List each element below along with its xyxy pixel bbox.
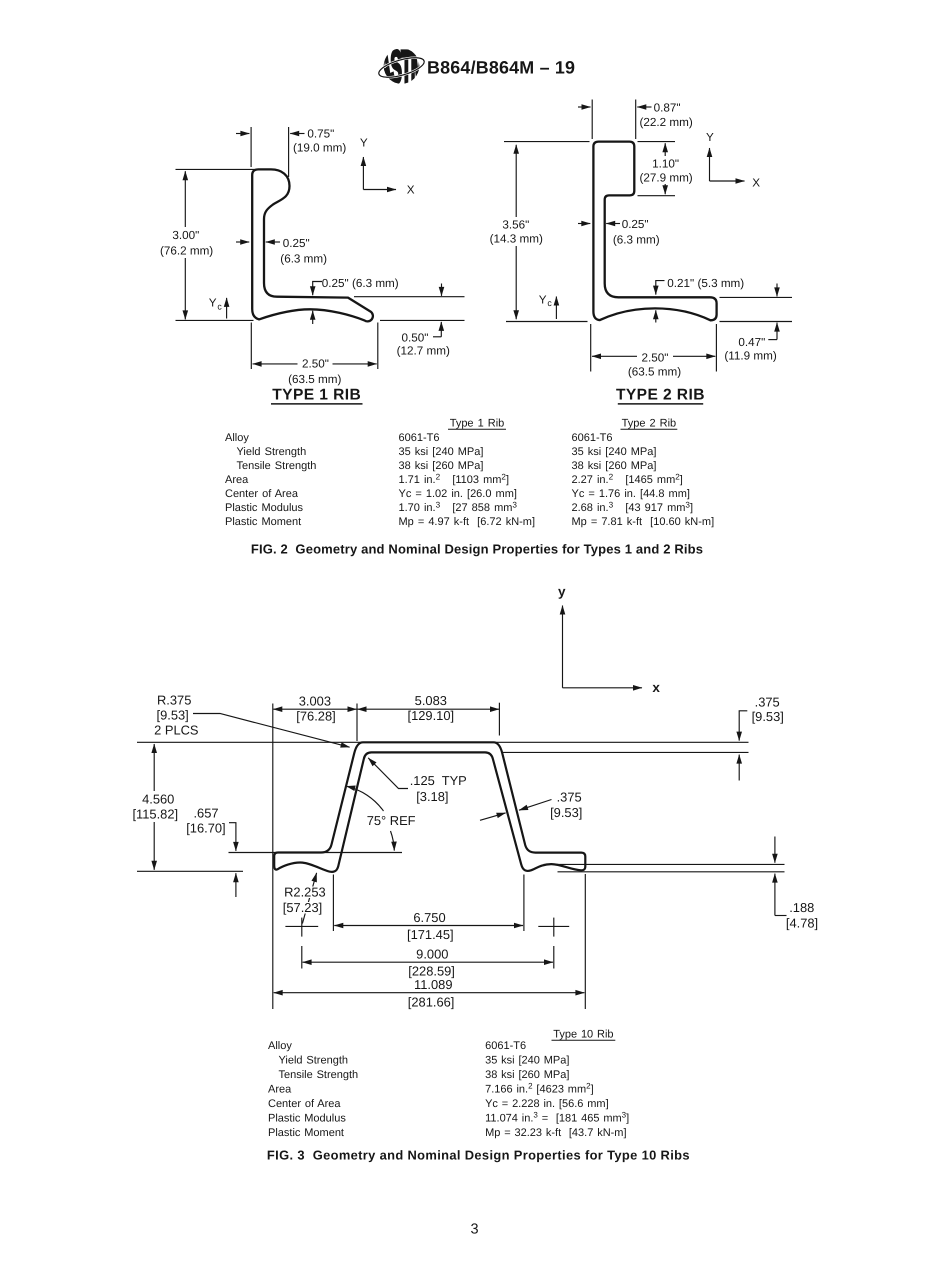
svg-text:0.25": 0.25" [622, 218, 649, 231]
svg-text:9.000: 9.000 [416, 946, 448, 961]
svg-text:FIG. 3 Geometry and Nominal D: FIG. 3 Geometry and Nominal Design Prope… [267, 1148, 690, 1163]
svg-text:0.25" (6.3 mm): 0.25" (6.3 mm) [322, 277, 399, 290]
fig2 0.47 leader foot [768, 339, 777, 341]
fig1 baseline left segment [176, 319, 254, 321]
fig1 0.25 flange up arrow [312, 311, 314, 324]
fig2 0.47 up arrow [776, 323, 778, 340]
Type 10 rib profile [274, 742, 585, 872]
svg-text:11.074 in.3 = [181 465 mm3]: 11.074 in.3 = [181 465 mm3] [485, 1111, 629, 1125]
fig2 0.25 stem left arrow [578, 223, 590, 225]
fig3 overall left extension line [272, 704, 274, 1010]
svg-text:5.083: 5.083 [415, 693, 447, 708]
fig1 baseline right segment [380, 319, 465, 321]
svg-text:35 ksi [240 MPa]: 35 ksi [240 MPa] [399, 446, 484, 458]
fig3 y axis [562, 606, 564, 688]
svg-text:35 ksi [240 MPa]: 35 ksi [240 MPa] [485, 1055, 569, 1067]
svg-text:y: y [558, 584, 566, 599]
svg-text:Plastic Modulus: Plastic Modulus [268, 1113, 346, 1125]
fig3 flange-top reference line [229, 852, 403, 854]
fig2 baseline left segment [506, 321, 588, 323]
svg-text:Y: Y [706, 131, 714, 144]
fig1 0.50 up arrow [440, 322, 442, 337]
svg-text:0.47": 0.47" [738, 336, 765, 349]
fig3 4.560 dim line lower [153, 822, 155, 870]
svg-text:[171.45]: [171.45] [407, 927, 454, 942]
fig2 0.87 dim right arrow [637, 106, 651, 108]
fig3 .657 leader bracket with down arrow [229, 823, 236, 851]
svg-text:(6.3 mm): (6.3 mm) [613, 233, 660, 246]
fig1 X axis [363, 189, 396, 191]
fig2 0.25 stem right arrow [606, 223, 620, 225]
fig3 overall right extension line [584, 874, 586, 1009]
svg-text:[9.53]: [9.53] [550, 805, 582, 820]
fig3 .125 TYP leader [368, 758, 408, 789]
fig2 1.10 down arrow [664, 184, 666, 194]
svg-text:3: 3 [470, 1222, 478, 1238]
fig2 3.56 dim line upper [515, 145, 517, 217]
svg-text:38 ksi [260 MPa]: 38 ksi [260 MPa] [572, 460, 657, 472]
svg-text:Alloy: Alloy [225, 432, 249, 444]
fig3 x axis [563, 687, 643, 689]
svg-text:75° REF: 75° REF [367, 813, 416, 828]
Type 1 rib profile [252, 169, 373, 321]
svg-text:[9.53]: [9.53] [752, 709, 784, 724]
fig1 0.25 stem right arrow [266, 241, 280, 243]
svg-text:(19.0 mm): (19.0 mm) [293, 142, 346, 155]
fig1 0.25 flange leader bracket with down arrow [313, 282, 322, 296]
svg-text:Y: Y [539, 293, 547, 306]
svg-text:Plastic Moment: Plastic Moment [268, 1127, 344, 1139]
fig2 3.56 dim line lower [515, 246, 517, 319]
fig2 top extension right for 1.10 [638, 141, 676, 143]
svg-text:Plastic Modulus: Plastic Modulus [225, 502, 304, 514]
fig1 2.50 dim right arrow [333, 363, 377, 365]
fig1 2.50 dim left arrow [253, 363, 298, 365]
properties table for Types 1 and 2 [225, 418, 714, 528]
svg-text:X: X [407, 184, 415, 197]
svg-text:Y: Y [209, 297, 217, 310]
svg-text:6061-T6: 6061-T6 [572, 432, 613, 444]
fig1 Y axis [362, 157, 364, 190]
fig1 2.50 left extension [250, 323, 252, 370]
fig3 .375 top leader bracket with down arrow [739, 711, 747, 741]
fig3 R.375 leader [193, 714, 350, 748]
svg-text:(22.2 mm): (22.2 mm) [640, 116, 693, 129]
svg-text:Tensile Strength: Tensile Strength [279, 1069, 359, 1081]
svg-text:[115.82]: [115.82] [132, 807, 178, 822]
fig3 extension line between 3.003 and 5.083 [356, 704, 358, 742]
svg-text:Mp = 32.23 k-ft [43.7 kN-m]: Mp = 32.23 k-ft [43.7 kN-m] [485, 1127, 626, 1139]
svg-text:3.56": 3.56" [502, 218, 529, 231]
svg-text:3.00": 3.00" [172, 229, 199, 242]
svg-text:FIG. 2 Geometry and Nominal D: FIG. 2 Geometry and Nominal Design Prope… [251, 541, 703, 556]
svg-text:0.75": 0.75" [307, 128, 334, 141]
fig3 4.560 dim line upper [153, 744, 155, 791]
svg-text:Yield Strength: Yield Strength [279, 1055, 349, 1067]
svg-text:(6.3 mm): (6.3 mm) [280, 252, 327, 265]
svg-text:[4.78]: [4.78] [786, 915, 818, 930]
fig1 Yc arrow [226, 298, 228, 319]
svg-text:1.70 in.3 [27 858 mm3: 1.70 in.3 [27 858 mm3 [399, 500, 518, 514]
fig2 1.10 up arrow [664, 143, 666, 156]
ASTM logo [377, 42, 426, 93]
svg-text:1.71 in.2 [1103 mm2]: 1.71 in.2 [1103 mm2] [399, 472, 510, 486]
fig3 .375 top up arrow [738, 755, 740, 781]
fig3 .657 up arrow [235, 873, 237, 897]
fig2 step extension for 1.10 [638, 195, 676, 197]
fig2 Y axis [709, 148, 711, 181]
svg-text:2.50": 2.50" [302, 358, 329, 371]
fig3 R2.253 leader [302, 873, 316, 924]
fig2 top extension line for 3.56 [504, 141, 590, 143]
svg-text:TYPE 1 RIB: TYPE 1 RIB [272, 387, 361, 404]
fig3 baseline left segment [137, 870, 243, 872]
fig3 top surface reference line [137, 741, 749, 743]
svg-text:1.10": 1.10" [652, 158, 679, 171]
fig3 .188 up arrow [774, 874, 776, 916]
svg-text:6061-T6: 6061-T6 [399, 432, 440, 444]
svg-text:38 ksi [260 MPa]: 38 ksi [260 MPa] [485, 1069, 569, 1081]
fig3 6.750 dimension line [334, 925, 523, 927]
fig3 75 deg arc lower segment [391, 831, 395, 851]
fig1 2.50 right extension [377, 323, 379, 370]
fig1 0.25 stem left arrow [236, 241, 249, 243]
fig2 2.50 left extension [590, 324, 592, 372]
svg-text:R2.253: R2.253 [284, 885, 326, 900]
svg-text:0.21" (5.3 mm): 0.21" (5.3 mm) [667, 277, 744, 290]
fig3 .375 wall inside arrow [480, 813, 506, 820]
svg-text:Center of Area: Center of Area [225, 488, 299, 500]
fig2 0.21 leader bracket with down arrow [656, 281, 665, 295]
fig3 5.083 dimension line [358, 708, 500, 710]
fig3 .188 upper extension line [544, 863, 785, 865]
svg-text:Type 1 Rib: Type 1 Rib [450, 418, 505, 430]
fig3 .188 leader foot [775, 915, 787, 917]
svg-text:0.25": 0.25" [283, 237, 310, 250]
fig1 3.00 dim line upper [184, 171, 186, 227]
fig2 0.21 up arrow [655, 310, 657, 322]
fig2 Yc arrow [555, 297, 557, 320]
svg-text:Mp = 4.97 k-ft [6.72 kN-m]: Mp = 4.97 k-ft [6.72 kN-m] [399, 516, 536, 528]
fig3 3.003 dimension line [273, 708, 356, 710]
fig2 X axis [710, 180, 745, 182]
svg-text:7.166 in.2 [4623 mm2]: 7.166 in.2 [4623 mm2] [485, 1082, 594, 1096]
svg-text:Type 10 Rib: Type 10 Rib [553, 1029, 613, 1041]
Type 2 rib profile [593, 142, 716, 321]
svg-text:38 ksi [260 MPa]: 38 ksi [260 MPa] [399, 460, 484, 472]
fig2 2.50 right extension [715, 324, 717, 372]
svg-text:35 ksi [240 MPa]: 35 ksi [240 MPa] [572, 446, 657, 458]
svg-text:ASTM: ASTM [379, 42, 425, 93]
svg-text:Alloy: Alloy [268, 1040, 292, 1052]
fig2 2.50 dim left arrow [592, 355, 637, 357]
svg-text:0.50": 0.50" [402, 332, 429, 345]
fig1 dimension texts [160, 128, 450, 386]
svg-text:x: x [652, 680, 660, 695]
svg-text:Yc = 2.228 in. [56.6 mm]: Yc = 2.228 in. [56.6 mm] [485, 1098, 609, 1110]
svg-text:c: c [217, 301, 222, 311]
svg-text:X: X [752, 176, 760, 189]
fig1 flange-top right extension line [354, 296, 465, 298]
svg-text:Yc = 1.76 in. [44.8 mm]: Yc = 1.76 in. [44.8 mm] [572, 488, 690, 500]
svg-text:.657: .657 [193, 805, 218, 820]
svg-text:Yc = 1.02 in. [26.0 mm]: Yc = 1.02 in. [26.0 mm] [399, 488, 517, 500]
fig2 extension line right of 0.87 dim [635, 100, 637, 140]
fig3 right center mark [538, 925, 569, 927]
svg-text:(27.9 mm): (27.9 mm) [639, 171, 692, 184]
fig3 11.089 dimension line [274, 992, 585, 994]
fig1 0.75 dim left arrow [236, 133, 249, 135]
fig2 0.47 down arrow [776, 284, 778, 297]
fig3 75 deg arc upper segment [346, 786, 383, 811]
svg-text:0.87": 0.87" [654, 101, 681, 114]
svg-text:.375: .375 [557, 790, 582, 805]
svg-text:.188: .188 [789, 900, 814, 915]
fig3 .188 lower extension line [558, 871, 785, 873]
fig3 .375 wall outside leader [519, 800, 552, 811]
svg-text:[76.28]: [76.28] [296, 708, 335, 723]
fig1 0.50 leader foot [433, 336, 441, 338]
svg-text:(63.5 mm): (63.5 mm) [628, 366, 681, 379]
properties table for Type 10 [268, 1029, 629, 1140]
svg-text:R.375: R.375 [157, 692, 191, 707]
fig3 6.750 right extension line [523, 875, 525, 932]
svg-text:Area: Area [225, 474, 249, 486]
fig3 dimension texts [132, 584, 818, 1009]
fig1 3.00 dim line lower [184, 258, 186, 319]
fig3 5.083 right extension line [498, 703, 500, 736]
fig1 top extension line for 3.00 [176, 168, 263, 170]
svg-text:Area: Area [268, 1084, 292, 1096]
svg-text:[9.53]: [9.53] [157, 708, 189, 723]
svg-text:Plastic Moment: Plastic Moment [225, 516, 301, 528]
fig3 9.000 right extension segment [553, 946, 555, 969]
svg-text:2.50": 2.50" [642, 351, 669, 364]
svg-text:TYPE 2 RIB: TYPE 2 RIB [616, 387, 705, 404]
svg-text:Tensile Strength: Tensile Strength [237, 460, 317, 472]
fig2 2.50 dim right arrow [673, 355, 715, 357]
fig1 0.50 down arrow [441, 284, 443, 296]
svg-text:Type 2 Rib: Type 2 Rib [622, 418, 677, 430]
fig3 left center mark [285, 925, 318, 927]
svg-text:2.68 in.3 [43 917 mm3]: 2.68 in.3 [43 917 mm3] [572, 500, 694, 514]
svg-text:[281.66]: [281.66] [408, 994, 455, 1009]
fig2 baseline right segment [720, 321, 793, 323]
svg-text:[129.10]: [129.10] [408, 708, 455, 723]
svg-text:Yield Strength: Yield Strength [237, 446, 307, 458]
fig2 extension line left of 0.87 dim [591, 100, 593, 140]
svg-text:Y: Y [360, 137, 368, 150]
svg-text:Mp = 7.81 k-ft [10.60 kN-m]: Mp = 7.81 k-ft [10.60 kN-m] [572, 516, 715, 528]
svg-text:c: c [547, 298, 552, 308]
svg-text:.125 TYP: .125 TYP [410, 773, 467, 788]
svg-text:11.089: 11.089 [414, 977, 452, 992]
fig1 extension line left of 0.75 dim [250, 127, 252, 167]
svg-text:(76.2 mm): (76.2 mm) [160, 245, 213, 258]
svg-text:4.560: 4.560 [142, 792, 174, 807]
fig2 0.87 dim left arrow [578, 106, 591, 108]
svg-text:6061-T6: 6061-T6 [485, 1040, 526, 1052]
svg-text:[3.18]: [3.18] [416, 789, 448, 804]
svg-text:B864/B864M – 19: B864/B864M – 19 [427, 58, 575, 78]
svg-text:(12.7 mm): (12.7 mm) [397, 345, 450, 358]
fig3 9.000 left extension segment [301, 946, 303, 969]
fig3 6.750 left extension line [332, 875, 334, 932]
svg-text:[16.70]: [16.70] [186, 820, 225, 835]
fig2 flange-top right extension [720, 296, 793, 298]
svg-text:2 PLCS: 2 PLCS [154, 723, 198, 738]
svg-text:6.750: 6.750 [413, 910, 445, 925]
svg-text:(63.5 mm): (63.5 mm) [288, 373, 341, 386]
fig3 9.000 dimension line [303, 961, 553, 963]
fig3 inner top surface extension line [503, 751, 749, 753]
svg-text:2.27 in.2 [1465 mm2]: 2.27 in.2 [1465 mm2] [572, 472, 683, 486]
svg-text:3.003: 3.003 [299, 693, 331, 708]
fig1 0.75 dim right arrow [290, 133, 304, 135]
svg-text:(11.9 mm): (11.9 mm) [724, 349, 776, 362]
svg-text:.375: .375 [755, 695, 780, 710]
svg-text:Center of Area: Center of Area [268, 1098, 341, 1110]
fig3 .188 down arrow [774, 837, 776, 863]
fig1 extension line right of 0.75 dim [288, 127, 290, 177]
svg-text:[57.23]: [57.23] [283, 900, 322, 915]
fig2 dimension texts [490, 101, 777, 378]
svg-text:(14.3 mm): (14.3 mm) [490, 233, 543, 246]
